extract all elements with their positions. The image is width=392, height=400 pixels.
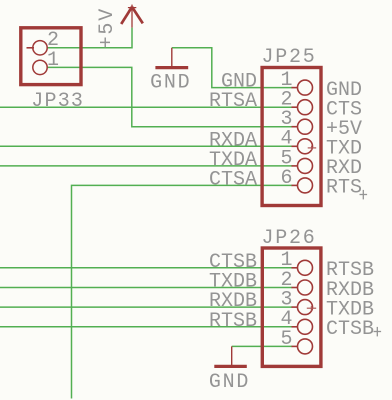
JP25 pin 5 stub bbox=[292, 165, 298, 167]
svg-text:6: 6 bbox=[280, 167, 292, 190]
svg-text:RTS: RTS bbox=[326, 177, 362, 200]
JP25 pin name RTS plus sign bbox=[360, 190, 368, 200]
JP25 pin 3 stub bbox=[292, 126, 298, 128]
JP25 pin 6 stub bbox=[292, 184, 298, 186]
svg-text:RTSA: RTSA bbox=[209, 90, 257, 113]
wire net TXDB to JP26 pin 2 bbox=[0, 287, 292, 289]
JP25 pin 1 stub bbox=[292, 87, 298, 89]
svg-text:JP25: JP25 bbox=[262, 46, 317, 69]
JP26 pin 2 bbox=[298, 280, 313, 295]
svg-text:GND: GND bbox=[150, 71, 191, 94]
svg-text:GND: GND bbox=[209, 371, 250, 394]
JP26 pin 5 bbox=[298, 339, 313, 354]
JP26 origin cross at pin 3 bbox=[307, 306, 316, 311]
ground symbol (top) bbox=[155, 48, 188, 68]
wire net RXDA to JP25 pin 4 bbox=[0, 145, 292, 147]
JP33 pin 2 bbox=[33, 41, 47, 55]
JP33 pin 2 stub bbox=[27, 47, 35, 49]
connector JP26 bbox=[209, 227, 381, 366]
connector JP25 bbox=[209, 46, 367, 206]
JP26 pin 4 bbox=[298, 319, 313, 334]
svg-text:CTSA: CTSA bbox=[209, 168, 257, 191]
JP25 pin 1 bbox=[298, 80, 313, 95]
power symbol +5V (arrow) bbox=[121, 5, 143, 28]
JP25 pin 4 stub bbox=[292, 145, 298, 147]
JP25 pin 2 bbox=[298, 100, 313, 115]
JP26 pin 1 stub bbox=[292, 267, 298, 269]
JP25 body bbox=[262, 68, 321, 206]
JP33 body bbox=[21, 28, 81, 85]
JP25 origin cross at pin 4 bbox=[308, 146, 317, 151]
JP26 pin 1 bbox=[298, 260, 313, 275]
wire net CTSA: JP25 pin 6 down off page bbox=[72, 185, 293, 398]
JP26 body bbox=[262, 248, 321, 366]
wire net TXDA to JP25 pin 5 bbox=[0, 165, 292, 167]
JP26 pin 3 bbox=[298, 300, 313, 315]
svg-text:CTSB: CTSB bbox=[326, 318, 374, 341]
svg-text:RTSB: RTSB bbox=[209, 310, 257, 333]
svg-text:1: 1 bbox=[47, 49, 59, 72]
JP33 pin 1 bbox=[33, 60, 47, 74]
JP26 pin 4 stub bbox=[292, 326, 298, 328]
wire net +5V: JP33 pin 2 to +5V arrow bbox=[47, 28, 132, 48]
JP25 pin 3 bbox=[298, 119, 313, 134]
wire net CTSB to JP26 pin 1 bbox=[0, 267, 292, 269]
JP26 pin 3 stub bbox=[292, 306, 298, 308]
JP25 pin 6 bbox=[298, 178, 313, 193]
wire net GND: bottom ground symbol to JP26 pin 5 bbox=[232, 345, 293, 347]
JP26 pin name CTSB plus sign bbox=[374, 327, 382, 337]
wire net RTSB to JP26 pin 4 bbox=[0, 326, 292, 328]
svg-text:JP33: JP33 bbox=[31, 90, 84, 113]
JP26 pin 2 stub bbox=[292, 287, 298, 289]
wire net VCC: JP33 pin 1 to JP25 pin 3 bbox=[47, 67, 292, 126]
wire net RXDB to JP26 pin 3 bbox=[0, 306, 292, 308]
svg-text:+5V: +5V bbox=[96, 7, 119, 48]
wire net RTSA to JP25 pin 2 bbox=[0, 106, 292, 108]
wire net GND: top ground symbol to JP25 pin 1 bbox=[172, 48, 292, 88]
ground symbol (bottom) bbox=[214, 346, 247, 366]
svg-text:5: 5 bbox=[280, 328, 292, 351]
JP26 pin 5 stub bbox=[292, 345, 298, 347]
JP25 pin 4 bbox=[298, 139, 313, 154]
JP25 pin 5 bbox=[298, 158, 313, 173]
JP25 pin 2 stub bbox=[292, 106, 298, 108]
connector JP33 bbox=[21, 28, 84, 113]
